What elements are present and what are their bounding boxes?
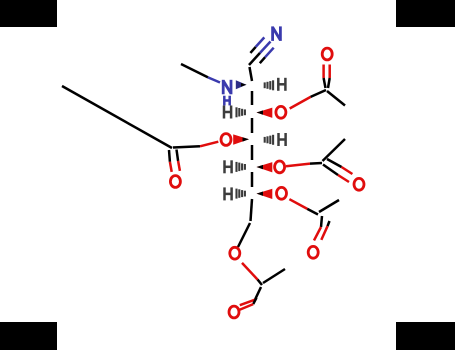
left acyl C=O double bond	[169, 150, 180, 172]
node H on C5	[225, 160, 232, 173]
node H on C3	[224, 106, 231, 119]
wire C2-C1 bond	[250, 67, 253, 81]
acetyl B methyl wire	[323, 139, 346, 161]
acetyl B C=O double bond	[323, 159, 352, 182]
corner box bottom-right	[396, 322, 455, 350]
wire backbone C6-CH2	[251, 199, 253, 221]
wedge C5 to O bold	[257, 162, 273, 172]
node H on C2	[278, 78, 285, 91]
hash C4 to H	[265, 135, 273, 145]
node ester O on CH2	[230, 247, 240, 259]
wire backbone C3-C4	[251, 118, 254, 133]
node acetyl D carbonyl O	[229, 306, 239, 318]
hash C2 to H	[265, 80, 273, 90]
wire nitrile triple bond side line upper	[250, 37, 264, 53]
node acetyl B carbonyl O	[354, 178, 364, 190]
node H on C4	[279, 133, 286, 146]
corner box bottom-left	[0, 322, 57, 350]
node acetyl C carbonyl O	[308, 246, 318, 258]
wedge C2 to N bold	[236, 80, 247, 89]
wire nitrile triple bond side line lower	[260, 48, 274, 64]
node O ester on C4 (left)	[221, 134, 231, 146]
node acetyl A carbonyl O	[322, 48, 332, 60]
acetyl C ester bond	[289, 199, 318, 214]
wire nitrile triple bond main line	[249, 42, 271, 66]
hash C3 to H	[237, 107, 245, 117]
corner box top-right	[396, 0, 455, 27]
acetyl D C=O double bond	[239, 287, 261, 310]
node O ester on C6	[277, 187, 287, 199]
acetyl A ester bond	[290, 90, 326, 109]
node H on C6	[225, 187, 232, 200]
node amine H label	[224, 96, 229, 106]
corner box top-left	[0, 0, 57, 27]
acetyl B ester bond	[286, 163, 322, 166]
wire left ester O-C bond	[173, 142, 218, 148]
acetyl D ester bond	[242, 263, 262, 285]
acetyl C methyl wire	[319, 200, 339, 212]
wire backbone C5-C6	[251, 172, 254, 187]
hash C5 to H	[237, 162, 245, 172]
acetyl C C=O double bond	[314, 216, 330, 240]
wedge C6 to O bold	[257, 189, 273, 199]
node amine N label	[223, 80, 231, 95]
wire CH2-O bond	[238, 223, 250, 247]
node left acyl carbonyl O label	[170, 176, 180, 188]
node O ester on C3	[276, 106, 286, 118]
acetyl A C=O double bond	[324, 65, 330, 89]
left acyl chain wire	[62, 86, 172, 148]
acetyl A methyl wire	[327, 91, 345, 106]
wire backbone C2-C3	[251, 91, 254, 105]
wire N-methyl bond	[181, 64, 220, 83]
acetyl D methyl wire	[263, 269, 285, 283]
wire backbone C4-C5	[251, 145, 254, 160]
node nitrile N label	[273, 26, 281, 41]
hash C6 to H	[237, 189, 245, 199]
node O ester on C5	[275, 161, 285, 173]
wedge C4 to O bold	[233, 134, 249, 144]
wedge C3 to O bold	[257, 108, 273, 118]
